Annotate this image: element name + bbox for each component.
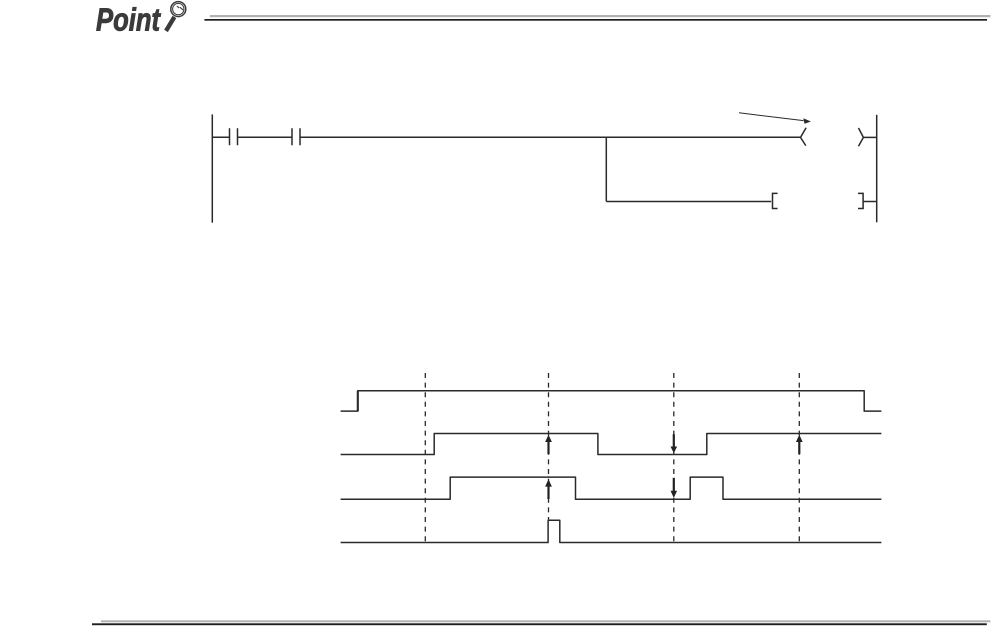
header rule black (204, 19, 987, 21)
wire rail to contact X1 (212, 136, 229, 138)
dashed line t1 (424, 373, 426, 542)
waveform 2 (341, 434, 882, 455)
branch wire down (605, 137, 607, 201)
dashed line t3 (673, 373, 675, 542)
footer rule black (92, 623, 987, 625)
contact X2 (normally open) (292, 128, 300, 145)
instruction bracket open (773, 193, 778, 208)
wire contact X2 to coil (300, 136, 801, 138)
header rule gray (210, 15, 991, 17)
svg-text:Point: Point (96, 2, 161, 38)
waveform 4 (341, 520, 882, 542)
coil right half (859, 128, 864, 146)
waveform 1 (341, 391, 882, 411)
wire coil to right rail (863, 136, 876, 138)
coil left half (801, 128, 807, 146)
arrow up t2 on waveform 2 (545, 435, 552, 455)
annotation arrow to coil (739, 113, 811, 124)
instruction bracket close (858, 193, 863, 208)
dashed line t2 (548, 373, 550, 521)
timing chart dashed grid lines (425, 373, 799, 542)
arrow up t4 on waveform 2 (796, 435, 803, 455)
contact X1 (normally open) (230, 128, 238, 145)
ladder left rail (211, 114, 213, 222)
arrow down t3 on waveform 2 (671, 434, 678, 453)
arrow down t3 on waveform 3 (671, 478, 678, 498)
dashed line t4 (798, 373, 800, 542)
wire bracket to right rail (863, 201, 877, 203)
arrow up t2 on waveform 3 (545, 479, 552, 499)
rung 2 wire (606, 201, 771, 203)
ladder right rail (876, 115, 878, 223)
Point logo magnifier handle (164, 16, 176, 32)
footer rule gray (101, 620, 990, 622)
waveform 3 (341, 477, 882, 499)
Point logo magnifier lens (171, 2, 186, 17)
wire contact X1 to contact X2 (238, 136, 293, 138)
waveform 1 rise edge (bold) (357, 391, 359, 411)
